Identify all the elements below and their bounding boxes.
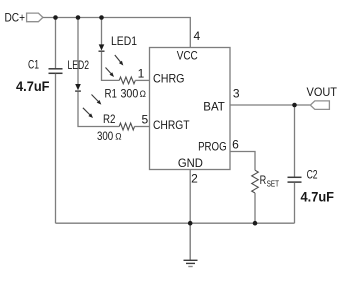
- svg-text:CHRG: CHRG: [153, 72, 185, 86]
- svg-text:SET: SET: [267, 179, 279, 189]
- wire RSET to rail: [254, 193, 256, 223]
- wire C2 branch top: [294, 105, 296, 177]
- resistor R1: [119, 77, 135, 84]
- svg-text:5: 5: [142, 113, 149, 127]
- node junction dots: [53, 15, 297, 225]
- svg-text:R: R: [260, 173, 267, 187]
- svg-text:6: 6: [232, 137, 239, 151]
- capacitor C1: [49, 69, 63, 74]
- LED D1: [99, 44, 105, 50]
- svg-text:4: 4: [193, 29, 200, 43]
- wire LED1 branch top: [101, 18, 103, 45]
- wire LED2 to pin 5: [78, 92, 119, 127]
- LED1 light arrows: [106, 55, 124, 77]
- svg-text:BAT: BAT: [203, 100, 225, 114]
- wire pin 2 GND to rail: [189, 170, 191, 224]
- resistor R2: [119, 123, 134, 130]
- svg-text:VOUT: VOUT: [307, 85, 338, 99]
- LED D2: [75, 84, 81, 90]
- ground: [184, 223, 198, 266]
- svg-text:Ω: Ω: [140, 89, 147, 99]
- svg-text:4.7uF: 4.7uF: [16, 79, 50, 94]
- op-amp U1 box: [150, 48, 231, 170]
- wire C1 bottom to ground rail: [55, 74, 57, 223]
- svg-text:Ω: Ω: [115, 132, 122, 142]
- svg-text:R2: R2: [103, 112, 116, 126]
- capacitor C2: [288, 177, 302, 182]
- wire LED2 branch top: [77, 18, 79, 85]
- svg-text:C2: C2: [307, 168, 318, 182]
- resistor RSET: [252, 170, 259, 193]
- svg-text:GND: GND: [178, 156, 203, 170]
- svg-text:PROG: PROG: [198, 140, 227, 154]
- svg-text:LED2: LED2: [68, 58, 90, 72]
- LED2 light arrows: [83, 95, 101, 119]
- wire C2 bottom to rail: [294, 183, 296, 224]
- svg-text:VCC: VCC: [177, 49, 198, 63]
- terminal DC+: [27, 13, 43, 22]
- svg-text:1: 1: [138, 67, 145, 81]
- wire LED1 to pin 1: [102, 52, 120, 81]
- svg-text:300: 300: [97, 129, 113, 143]
- wire pin 6 PROG to RSET: [230, 152, 255, 171]
- svg-text:3: 3: [233, 87, 240, 101]
- svg-text:LED1: LED1: [111, 34, 137, 48]
- wire pin 3 BAT to VOUT: [230, 104, 310, 106]
- svg-text:4.7uF: 4.7uF: [301, 189, 335, 204]
- wire R1 to pin 1: [135, 79, 149, 81]
- svg-text:2: 2: [191, 172, 198, 186]
- svg-text:300: 300: [121, 86, 139, 100]
- svg-text:R1: R1: [105, 86, 118, 100]
- wire C1 branch top: [55, 18, 57, 69]
- svg-text:DC+: DC+: [5, 10, 26, 24]
- svg-text:CHRGT: CHRGT: [153, 118, 190, 132]
- wire R2 to pin 5: [135, 126, 150, 128]
- wire ground rail: [56, 222, 295, 224]
- wire top rail DC+ to VCC corner: [43, 18, 190, 48]
- terminal VOUT: [310, 101, 329, 110]
- svg-text:C1: C1: [28, 57, 39, 71]
